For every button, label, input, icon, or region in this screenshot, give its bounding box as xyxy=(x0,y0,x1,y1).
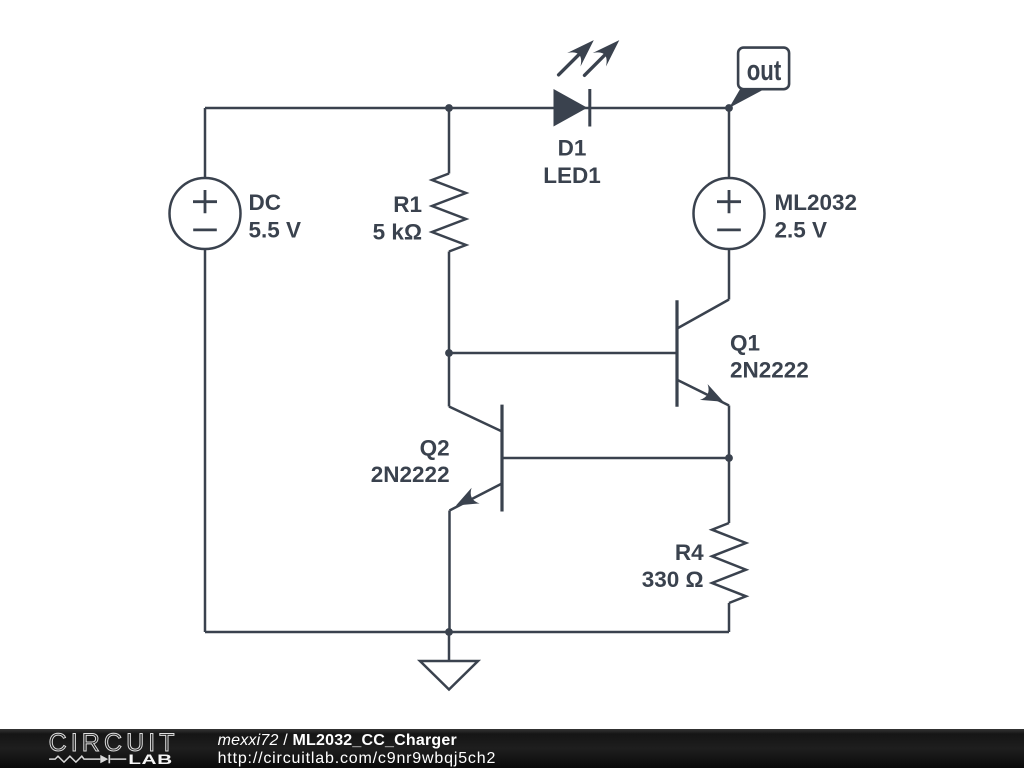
transistor Q2 (NPN, mirrored) xyxy=(448,353,451,407)
LED light arrow 2 xyxy=(585,53,608,76)
svg-text:LAB: LAB xyxy=(128,751,173,767)
svg-text:5 kΩ: 5 kΩ xyxy=(373,220,422,245)
ground xyxy=(448,632,451,661)
svg-text:2N2222: 2N2222 xyxy=(730,357,809,382)
svg-text:http://circuitlab.com/c9nr9wbq: http://circuitlab.com/c9nr9wbqj5ch2 xyxy=(218,750,497,767)
wire Q2 base horizontal xyxy=(504,457,730,460)
svg-text:Q2: Q2 xyxy=(420,436,450,461)
resistor R4 xyxy=(728,458,731,523)
node junction 2 xyxy=(725,104,733,112)
svg-text:ML2032: ML2032 xyxy=(775,190,858,215)
node junction 3 xyxy=(445,349,453,357)
logo resistor zigzag xyxy=(49,756,100,762)
svg-text:R4: R4 xyxy=(675,540,704,565)
wire R1/Q1 base horizontal xyxy=(449,352,676,355)
svg-text:out: out xyxy=(747,55,782,87)
LED light arrow 1 xyxy=(559,53,581,75)
resistor R1 xyxy=(448,108,451,174)
node junction 5 xyxy=(445,628,453,636)
voltage source ML2032 xyxy=(728,108,731,178)
svg-text:2.5 V: 2.5 V xyxy=(775,218,828,243)
net flag out xyxy=(729,89,764,108)
wire left vertical (DC bottom) xyxy=(204,249,207,632)
svg-text:D1: D1 xyxy=(558,136,587,161)
logo diode xyxy=(100,755,108,763)
wire top horizontal xyxy=(205,107,729,110)
transistor Q1 (NPN) xyxy=(728,249,731,300)
svg-text:R1: R1 xyxy=(393,192,422,217)
svg-text:5.5 V: 5.5 V xyxy=(249,218,302,243)
svg-text:Q1: Q1 xyxy=(730,331,760,356)
svg-text:LED1: LED1 xyxy=(543,163,601,188)
LED D1 xyxy=(554,89,588,127)
svg-text:DC: DC xyxy=(249,190,282,215)
svg-text:330 Ω: 330 Ω xyxy=(642,567,704,592)
svg-text:mexxi72 / ML2032_CC_Charger: mexxi72 / ML2032_CC_Charger xyxy=(218,732,457,749)
svg-text:2N2222: 2N2222 xyxy=(371,462,450,487)
voltage source DC xyxy=(170,178,241,249)
wire bottom horizontal xyxy=(205,631,729,634)
node junction 4 xyxy=(725,454,733,462)
node junction 1 xyxy=(445,104,453,112)
wire left vertical (DC top) xyxy=(204,108,207,178)
